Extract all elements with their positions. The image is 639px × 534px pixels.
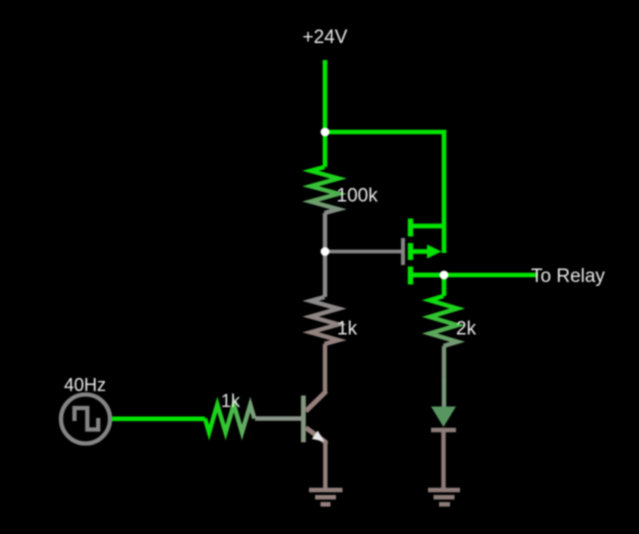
- resistor R1 100k: [311, 132, 339, 252]
- node C drain junction: [440, 271, 449, 280]
- svg-text:40Hz: 40Hz: [64, 375, 106, 395]
- value label 2k: [456, 319, 477, 340]
- resistor R3 1k (collector load): [311, 252, 339, 394]
- voltage source V1 40Hz square wave: [61, 395, 110, 444]
- svg-text:100k: 100k: [337, 186, 379, 207]
- diode D1: [431, 378, 456, 489]
- svg-text:+24V: +24V: [303, 27, 348, 48]
- resistor R4 1k (base): [205, 405, 254, 433]
- transistor Q1 NPN: [303, 391, 325, 488]
- label +24V: [303, 27, 348, 48]
- wire from source to resistor: [110, 416, 205, 421]
- wire to relay output: [444, 273, 538, 278]
- resistor R2 2k: [430, 275, 458, 378]
- value label 1k (base): [221, 391, 241, 411]
- wire gate: [325, 250, 401, 254]
- transistor U1 p-channel MOSFET: [403, 219, 444, 285]
- wire +24V supply down: [323, 60, 328, 133]
- value label 100k: [337, 186, 379, 207]
- ground left: [309, 490, 343, 504]
- node B junction gate: [321, 247, 330, 256]
- svg-text:1k: 1k: [221, 391, 241, 411]
- svg-text:2k: 2k: [456, 319, 477, 340]
- label To Relay: [531, 266, 605, 287]
- svg-text:1k: 1k: [337, 319, 358, 340]
- wire base: [255, 416, 302, 420]
- wire vertical down to MOSFET source: [442, 130, 447, 253]
- value label 1k (collector): [337, 319, 358, 340]
- label 40Hz: [64, 375, 106, 395]
- ground right: [428, 490, 460, 504]
- wire top horizontal to MOSFET source branch: [323, 130, 446, 135]
- svg-text:To Relay: To Relay: [531, 266, 605, 287]
- node A junction top: [321, 128, 330, 137]
